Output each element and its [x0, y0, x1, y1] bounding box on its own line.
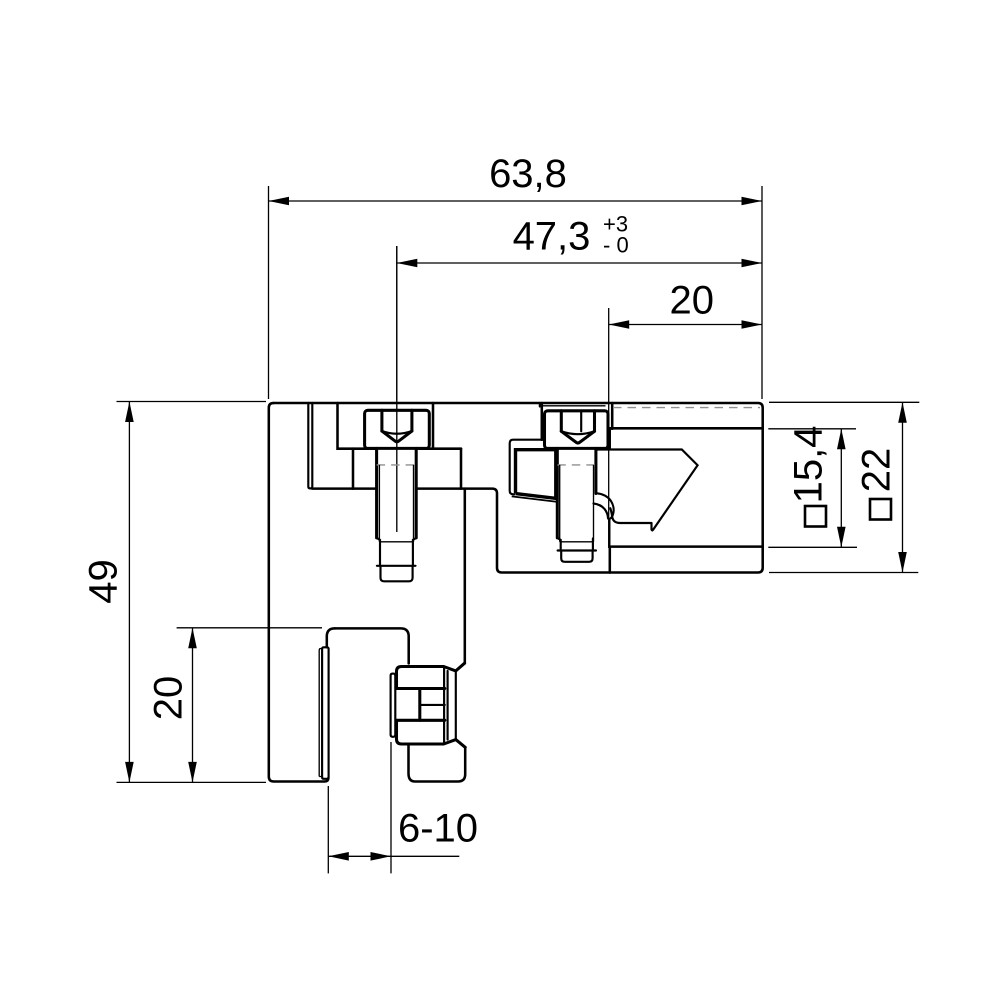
top edge tick	[539, 403, 541, 407]
stem left edge lower	[409, 746, 466, 782]
pressure pad nut: bottom band	[397, 720, 456, 744]
screw 2 head	[545, 411, 609, 449]
pressure pad nut: middle rects	[421, 704, 445, 706]
dimension 15,4 right	[768, 426, 857, 548]
clamp claw outer	[510, 440, 543, 495]
pressure pad tip	[391, 674, 396, 737]
screw 1 tip	[381, 566, 413, 582]
svg-text:63,8: 63,8	[489, 152, 567, 196]
svg-text:6-10: 6-10	[398, 807, 478, 851]
nose wall down to channel bottom	[608, 519, 610, 547]
screw 2 tip	[561, 551, 592, 562]
svg-text:20: 20	[147, 676, 191, 721]
stem right edge	[464, 489, 467, 664]
screw 2 hex socket	[560, 411, 563, 432]
screw 2 thread minor lines	[560, 465, 594, 542]
dimension 49 left	[82, 402, 267, 783]
housing left wall (screw2)	[541, 403, 544, 440]
svg-text:47,3: 47,3	[513, 215, 591, 259]
screw 1 shank	[377, 448, 417, 538]
spring clip nose arcs	[596, 493, 613, 519]
screw 2 hidden thread line	[557, 464, 596, 466]
pressure pad nut: right column	[448, 671, 456, 740]
dimension 63,8	[269, 152, 763, 399]
part outline: top bar and right channel outer	[274, 403, 763, 573]
screw1 counterbore left wall	[338, 403, 377, 449]
screw 1 hex socket	[380, 410, 383, 431]
dimension 20 left	[147, 628, 323, 783]
glass gasket strip	[322, 647, 329, 779]
housing right wall lower	[608, 429, 611, 449]
screw 2 tip flange	[558, 549, 596, 551]
channel hidden dashed line	[613, 407, 760, 409]
screw 1 centerline	[396, 246, 398, 532]
channel inner top line	[610, 427, 763, 430]
screw 2 lower narrow section	[557, 538, 593, 551]
screw 2 shank	[557, 448, 596, 538]
svg-text:20: 20	[670, 279, 715, 323]
dimension 47,3 +3/-0	[397, 212, 762, 401]
clamp claw inner plate	[516, 450, 556, 498]
screw 2 counterbore floor	[545, 447, 610, 450]
svg-text:49: 49	[82, 559, 126, 604]
dimension 6-10 bottom	[328, 742, 478, 873]
screw1 counterbore step left	[352, 449, 355, 489]
bar bottom left segment	[312, 487, 376, 490]
expansion slit	[308, 403, 312, 488]
channel inner bottom line	[611, 545, 763, 548]
svg-text:22: 22	[855, 448, 899, 493]
screw 1 head	[365, 410, 430, 448]
screw 1 tip flange	[377, 565, 416, 567]
dimension 20 top	[609, 279, 762, 548]
spring clip pentagon	[597, 450, 698, 531]
screw 1 lower narrow section	[377, 538, 417, 566]
housing right wall upper	[611, 403, 614, 429]
screw1 counterbore right wall	[416, 403, 461, 449]
dimension 22 right	[769, 402, 919, 572]
screw1 counterbore step right	[460, 449, 463, 489]
slot ceiling (glass slot top)	[335, 628, 409, 663]
channel bottom left wall	[609, 547, 612, 573]
screw 1 hidden thread line	[377, 464, 417, 466]
svg-text:15,4: 15,4	[787, 426, 831, 504]
pressure pad nut: top band	[397, 667, 456, 672]
part outline: left jaw	[269, 403, 329, 782]
svg-text:- 0: - 0	[603, 233, 629, 258]
slot floor thin line	[542, 405, 606, 407]
screw 1 thread minor lines	[379, 465, 413, 542]
